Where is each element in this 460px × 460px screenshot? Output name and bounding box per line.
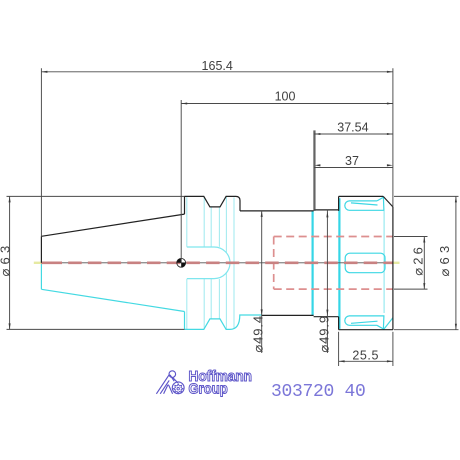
svg-text:165.4: 165.4 (202, 59, 233, 73)
svg-text:Group: Group (189, 381, 228, 397)
svg-text:⌀49.9: ⌀49.9 (316, 315, 331, 353)
svg-text:25.5: 25.5 (352, 348, 379, 362)
svg-text:⌀26: ⌀26 (411, 244, 426, 276)
svg-text:37.54: 37.54 (337, 121, 368, 135)
svg-text:⌀49.4: ⌀49.4 (250, 315, 265, 353)
svg-text:303720 40: 303720 40 (271, 382, 366, 402)
svg-text:37: 37 (345, 154, 359, 168)
svg-text:100: 100 (275, 89, 296, 103)
svg-text:⌀63: ⌀63 (437, 242, 452, 277)
svg-text:⌀63: ⌀63 (0, 242, 12, 277)
